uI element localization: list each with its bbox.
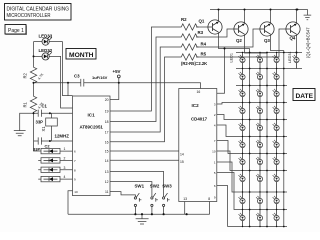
- svg-text:R5: R5: [201, 51, 207, 56]
- svg-text:8: 8: [208, 197, 210, 201]
- svg-text:R2: R2: [181, 17, 187, 22]
- svg-text:C2: C2: [45, 143, 51, 148]
- svg-text:MONTH: MONTH: [69, 52, 94, 59]
- svg-text:10: 10: [74, 190, 78, 194]
- svg-text:19: 19: [105, 109, 109, 113]
- svg-text:17: 17: [105, 131, 109, 135]
- svg-text:MICROCONTROLLER: MICROCONTROLLER: [7, 13, 51, 19]
- svg-text:(R2-R5)=2.2K: (R2-R5)=2.2K: [181, 61, 207, 66]
- svg-text:1uF/16V: 1uF/16V: [92, 75, 108, 80]
- svg-text:33P: 33P: [33, 147, 40, 152]
- svg-text:33P: 33P: [36, 119, 44, 124]
- svg-text:(Q1-Q4)=BC547: (Q1-Q4)=BC547: [306, 27, 311, 58]
- svg-text:13: 13: [105, 170, 109, 174]
- svg-text:12: 12: [105, 180, 109, 184]
- svg-text:Q1: Q1: [199, 19, 205, 24]
- svg-text:AT89C2051: AT89C2051: [80, 125, 104, 130]
- svg-text:Q3: Q3: [264, 38, 270, 43]
- svg-text:LED33: LED33: [39, 33, 53, 38]
- svg-text:10: 10: [212, 150, 216, 154]
- svg-text:13: 13: [183, 197, 187, 201]
- svg-text:14: 14: [105, 159, 109, 163]
- svg-text:2: 2: [64, 157, 66, 161]
- svg-text:3: 3: [64, 166, 66, 170]
- svg-text:4: 4: [64, 175, 66, 179]
- svg-text:Q4: Q4: [290, 36, 296, 41]
- svg-text:LED32: LED32: [39, 48, 53, 53]
- svg-text:1: 1: [64, 147, 66, 151]
- svg-text:12MHZ: 12MHZ: [55, 134, 70, 139]
- svg-text:DIGITAL CALENDAR USING: DIGITAL CALENDAR USING: [7, 7, 70, 13]
- svg-text:14: 14: [180, 153, 184, 157]
- svg-text:18: 18: [105, 120, 109, 124]
- svg-text:LED1: LED1: [230, 53, 234, 63]
- svg-text:R2: R2: [23, 72, 28, 78]
- svg-text:16: 16: [105, 140, 109, 144]
- svg-text:SW3: SW3: [162, 184, 172, 189]
- svg-text:SW2: SW2: [150, 184, 160, 189]
- svg-text:R1: R1: [23, 101, 28, 107]
- svg-text:11: 11: [105, 190, 109, 194]
- svg-text:R3: R3: [198, 30, 204, 35]
- svg-text:Page 1: Page 1: [8, 28, 24, 34]
- svg-text:IC2: IC2: [192, 103, 200, 108]
- svg-text:+5V: +5V: [113, 69, 121, 74]
- svg-text:X1: X1: [41, 126, 46, 132]
- svg-text:CD4017: CD4017: [191, 116, 208, 121]
- svg-text:IC1: IC1: [88, 113, 96, 118]
- svg-text:DATE: DATE: [296, 93, 314, 100]
- svg-text:20: 20: [105, 98, 109, 102]
- svg-text:C3: C3: [74, 74, 80, 79]
- svg-text:R4: R4: [201, 42, 207, 47]
- svg-text:15: 15: [180, 160, 184, 164]
- svg-text:LED31: LED31: [288, 51, 292, 63]
- svg-text:Q2: Q2: [236, 38, 242, 43]
- svg-text:15: 15: [105, 150, 109, 154]
- svg-text:SW1: SW1: [135, 184, 145, 189]
- svg-text:16: 16: [197, 90, 201, 94]
